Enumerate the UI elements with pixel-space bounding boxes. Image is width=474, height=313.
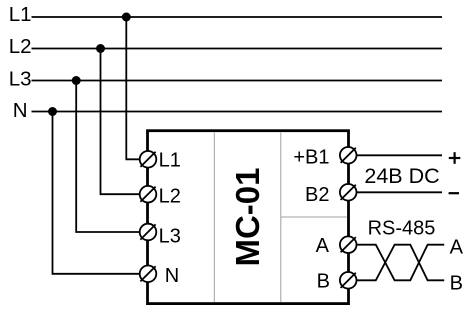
junction dot on L2 (96, 44, 105, 53)
divider right column (280, 132, 282, 302)
svg-text:24B DC: 24B DC (364, 164, 439, 188)
junction dot on N (48, 107, 57, 116)
svg-text:B2: B2 (305, 184, 329, 206)
wire L2 bus (32, 48, 443, 50)
wire N bus (32, 111, 443, 113)
divider left column (213, 132, 215, 302)
svg-text:RS-485: RS-485 (368, 217, 436, 239)
svg-text:L2: L2 (9, 35, 32, 58)
wire L2 drop to terminal (101, 49, 143, 195)
minus sign (449, 192, 459, 194)
svg-text:+B1: +B1 (293, 147, 329, 169)
device MC-01 box (148, 131, 349, 304)
svg-text:B: B (317, 271, 330, 293)
svg-text:B: B (450, 272, 463, 294)
svg-text:L1: L1 (9, 3, 32, 26)
wire RS-485 A (twisted pair) (357, 245, 445, 281)
svg-text:L3: L3 (9, 68, 32, 91)
wire +B1 to plus (357, 154, 442, 156)
svg-text:L1: L1 (159, 149, 181, 171)
terminal +B1 (340, 147, 357, 164)
wire B2 to minus (357, 191, 442, 193)
terminal B (340, 272, 357, 289)
svg-text:N: N (13, 99, 28, 122)
svg-text:A: A (316, 235, 330, 257)
wire L1 drop to terminal (126, 17, 142, 159)
svg-text:L3: L3 (159, 226, 181, 248)
svg-text:L2: L2 (159, 186, 181, 208)
wire L1 bus (32, 16, 443, 18)
svg-text:A: A (450, 237, 464, 259)
junction dot on L3 (72, 76, 81, 85)
wire L3 drop to terminal (76, 81, 142, 233)
wire RS-485 B (twisted pair) (357, 245, 445, 281)
terminal L2 (140, 186, 157, 203)
terminal L3 (140, 224, 157, 241)
terminal L1 (140, 151, 157, 168)
junction dot on L1 (122, 13, 131, 22)
terminal B2 (340, 184, 357, 201)
terminal A (340, 236, 357, 253)
svg-text:N: N (165, 265, 179, 287)
plus sign (449, 152, 461, 164)
divider horizontal in right column (281, 216, 347, 218)
wire N drop to terminal (53, 112, 143, 274)
wire L3 bus (32, 80, 443, 82)
terminal N (140, 266, 157, 283)
svg-text:MC-01: MC-01 (229, 167, 266, 266)
